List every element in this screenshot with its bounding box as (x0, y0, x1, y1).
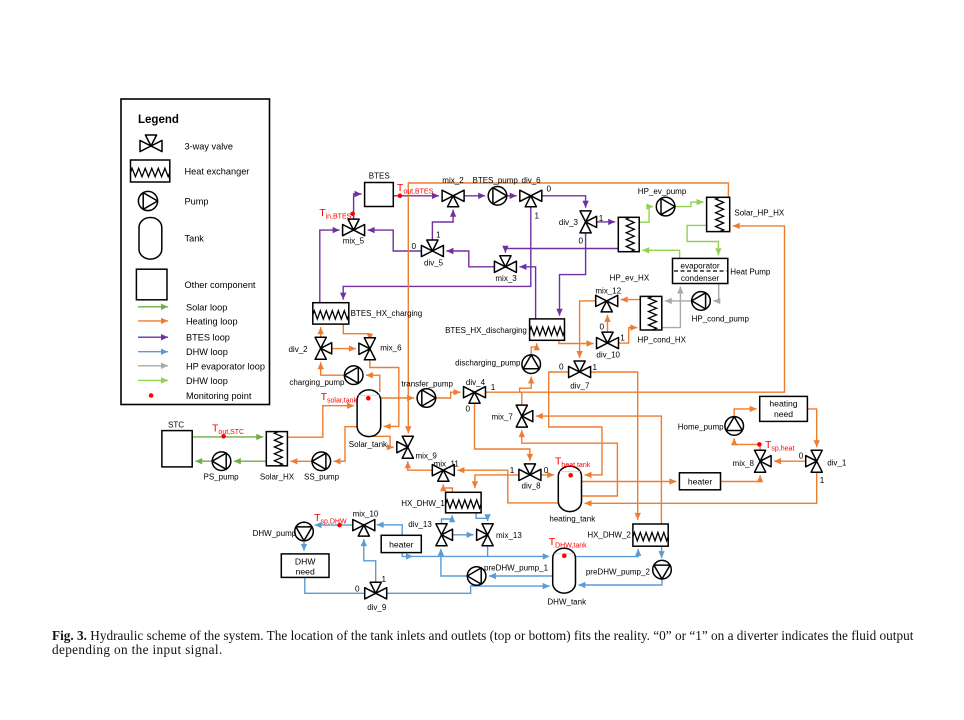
svg-text:Heat exchanger: Heat exchanger (185, 167, 250, 177)
svg-text:Solar loop: Solar loop (186, 302, 227, 312)
svg-text:Heat Pump: Heat Pump (730, 268, 771, 277)
svg-text:evaporator: evaporator (680, 261, 719, 270)
svg-text:Tsolar,tank: Tsolar,tank (321, 391, 358, 405)
svg-text:mix_5: mix_5 (343, 237, 365, 246)
svg-text:need: need (774, 409, 793, 419)
svg-text:BTES loop: BTES loop (186, 333, 230, 343)
svg-text:Tsp,DHW: Tsp,DHW (314, 512, 347, 526)
svg-text:DHW: DHW (295, 557, 316, 567)
svg-text:Monitoring point: Monitoring point (186, 391, 252, 401)
svg-text:0: 0 (799, 451, 804, 460)
svg-text:div_5: div_5 (424, 258, 444, 267)
svg-text:mix_6: mix_6 (380, 344, 402, 353)
svg-text:1: 1 (620, 333, 625, 342)
svg-text:mix_7: mix_7 (491, 413, 513, 422)
svg-text:BTES: BTES (369, 172, 390, 181)
svg-text:Tank: Tank (185, 234, 205, 244)
svg-text:1: 1 (436, 231, 441, 240)
svg-text:1: 1 (599, 214, 604, 223)
svg-text:div_10: div_10 (596, 351, 620, 360)
svg-text:mix_12: mix_12 (595, 286, 621, 295)
svg-text:heating: heating (769, 398, 797, 408)
svg-text:heater: heater (389, 540, 414, 550)
svg-text:mix_8: mix_8 (733, 459, 755, 468)
svg-text:mix_13: mix_13 (496, 531, 522, 540)
svg-text:1: 1 (535, 212, 540, 221)
svg-text:0: 0 (412, 242, 417, 251)
svg-text:BTES_HX_discharging: BTES_HX_discharging (445, 326, 527, 335)
svg-text:div_6: div_6 (522, 176, 542, 185)
svg-text:mix_3: mix_3 (495, 274, 517, 283)
svg-text:Pump: Pump (185, 197, 209, 207)
svg-text:1: 1 (820, 476, 825, 485)
svg-text:STC: STC (168, 421, 184, 430)
svg-text:Solar_HX: Solar_HX (260, 473, 295, 482)
svg-text:Other component: Other component (185, 280, 256, 290)
svg-text:mix_2: mix_2 (442, 176, 464, 185)
svg-text:0: 0 (600, 323, 605, 332)
svg-text:mix_10: mix_10 (353, 509, 379, 518)
svg-text:0: 0 (466, 405, 471, 414)
svg-text:BTES_HX_charging: BTES_HX_charging (351, 309, 423, 318)
svg-text:HX_DHW_2: HX_DHW_2 (587, 531, 631, 540)
svg-text:div_9: div_9 (367, 603, 387, 612)
svg-text:preDHW_pump_2: preDHW_pump_2 (586, 567, 651, 576)
svg-text:0: 0 (355, 585, 360, 594)
svg-text:div_2: div_2 (288, 345, 308, 354)
svg-text:div_3: div_3 (559, 218, 579, 227)
svg-text:1: 1 (510, 466, 515, 475)
svg-text:1: 1 (382, 575, 387, 584)
svg-text:need: need (296, 567, 315, 577)
svg-text:1: 1 (593, 363, 598, 372)
svg-text:SS_pump: SS_pump (304, 473, 340, 482)
svg-text:Tout,STC: Tout,STC (212, 422, 244, 436)
svg-text:BTES_pump: BTES_pump (473, 176, 519, 185)
svg-text:Heating loop: Heating loop (186, 316, 238, 326)
svg-text:Solar_tank: Solar_tank (349, 440, 388, 449)
svg-text:Fig. 3. Hydraulic scheme of t: Fig. 3. Hydraulic scheme of the system. … (52, 628, 914, 643)
svg-text:depending on the input signal.: depending on the input signal. (52, 642, 223, 657)
svg-text:TDHW,tank: TDHW,tank (549, 536, 587, 550)
svg-text:0: 0 (579, 237, 584, 246)
svg-text:HP evaporator loop: HP evaporator loop (186, 361, 265, 371)
svg-text:0: 0 (544, 466, 549, 475)
svg-text:3-way valve: 3-way valve (185, 142, 234, 152)
svg-text:Legend: Legend (138, 114, 179, 126)
svg-text:div_8: div_8 (522, 482, 542, 491)
svg-text:heating_tank: heating_tank (549, 515, 596, 524)
svg-text:div_7: div_7 (570, 382, 590, 391)
svg-text:HP_ev_HX: HP_ev_HX (610, 274, 650, 283)
svg-text:HX_DHW_1: HX_DHW_1 (401, 499, 445, 508)
svg-text:div_4: div_4 (466, 378, 486, 387)
svg-text:DHW loop: DHW loop (186, 347, 228, 357)
svg-text:DHW_pump: DHW_pump (253, 529, 297, 538)
svg-text:div_1: div_1 (827, 459, 847, 468)
svg-text:mix_11: mix_11 (434, 459, 460, 468)
svg-text:preDHW_pump_1: preDHW_pump_1 (484, 563, 549, 572)
svg-text:Solar_HP_HX: Solar_HP_HX (734, 209, 784, 218)
svg-text:HP_cond_HX: HP_cond_HX (638, 336, 687, 345)
svg-text:transfer_pump: transfer_pump (401, 379, 453, 388)
svg-text:DHW_tank: DHW_tank (547, 597, 587, 606)
svg-text:heater: heater (688, 476, 713, 486)
svg-text:1: 1 (491, 383, 496, 392)
svg-text:Tout,BTES: Tout,BTES (397, 182, 434, 196)
svg-text:0: 0 (559, 363, 564, 372)
svg-text:Tsp,heat: Tsp,heat (765, 439, 794, 453)
svg-text:Theat,tank: Theat,tank (555, 455, 591, 469)
svg-text:0: 0 (547, 185, 552, 194)
svg-text:Tin,BTES: Tin,BTES (319, 207, 351, 221)
svg-text:condenser: condenser (681, 274, 720, 283)
svg-text:Home_pump: Home_pump (678, 423, 724, 432)
svg-text:HP_cond_pump: HP_cond_pump (692, 315, 750, 324)
svg-text:div_13: div_13 (408, 520, 432, 529)
svg-text:PS_pump: PS_pump (204, 473, 240, 482)
svg-text:charging_pump: charging_pump (289, 378, 345, 387)
svg-text:discharging_pump: discharging_pump (455, 358, 521, 367)
svg-text:HP_ev_pump: HP_ev_pump (638, 187, 687, 196)
svg-text:DHW loop: DHW loop (186, 376, 228, 386)
